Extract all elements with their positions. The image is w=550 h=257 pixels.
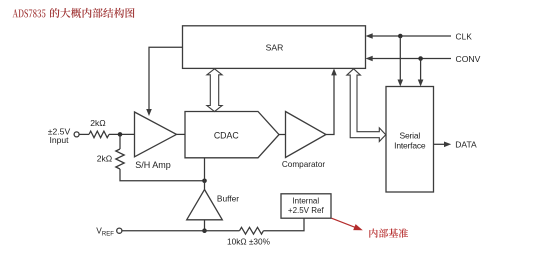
wire Comparator output up to SAR <box>326 68 337 134</box>
svg-text:S/H Amp: S/H Amp <box>135 160 171 170</box>
svg-text:+2.5V Ref: +2.5V Ref <box>288 206 325 215</box>
svg-text:SAR: SAR <box>266 43 284 53</box>
wire VREF to R3 <box>122 230 240 232</box>
wire R2 to bottom rail <box>120 169 205 181</box>
wire input to R1 <box>79 133 89 135</box>
wire DATA output <box>434 142 452 148</box>
node CLK junction <box>398 34 403 39</box>
resistor R2 2kΩ (vertical) <box>97 149 124 169</box>
wire R1 to S/H Amp <box>109 133 135 135</box>
terminal ±2.5V Input <box>48 127 79 145</box>
svg-text:VREF: VREF <box>96 226 114 238</box>
svg-text:DATA: DATA <box>455 140 477 150</box>
svg-text:10kΩ ±30%: 10kΩ ±30% <box>227 236 271 246</box>
wire SAR left to S/H Amp control <box>146 47 182 116</box>
node input junction <box>118 132 123 137</box>
block Internal +2.5V Ref <box>281 194 331 218</box>
wire junction down <box>119 134 121 149</box>
svg-text:Interface: Interface <box>394 140 426 150</box>
svg-text:Serial: Serial <box>400 130 421 140</box>
block Serial Interface <box>386 87 434 193</box>
terminal VREF <box>96 226 122 238</box>
wire R3 to Internal Ref box <box>264 218 305 231</box>
block CDAC <box>185 112 279 158</box>
svg-text:2kΩ: 2kΩ <box>97 154 113 164</box>
svg-text:Buffer: Buffer <box>217 194 239 204</box>
node VREF junction <box>202 228 207 233</box>
wire CDAC bottom to Buffer apex <box>204 158 206 190</box>
svg-text:CLK: CLK <box>456 33 473 42</box>
wire Buffer base to VREF rail <box>204 220 206 231</box>
hollow arrow SAR-CDAC (bidirectional) <box>207 69 222 112</box>
wire CONV to SAR <box>366 56 452 62</box>
svg-text:Internal: Internal <box>292 196 319 205</box>
node CONV junction <box>418 56 423 61</box>
op-amp S/H Amp <box>135 112 177 170</box>
op-amp Buffer <box>187 190 240 220</box>
red annotation arrow 内部基准 <box>332 218 409 238</box>
svg-text:CONV: CONV <box>456 54 481 64</box>
op-amp Comparator <box>282 112 326 170</box>
svg-text:2kΩ: 2kΩ <box>90 118 106 128</box>
wire CLK to SAR <box>366 33 452 39</box>
wire S/H Amp output to CDAC <box>177 133 186 135</box>
hollow arrow SAR-Serial Interface (bent, double-headed) <box>347 69 386 142</box>
resistor R1 2kΩ (horizontal) <box>89 118 109 138</box>
resistor R3 10kΩ ±30% <box>227 227 271 246</box>
wire CDAC to Comparator <box>279 134 286 136</box>
svg-text:CDAC: CDAC <box>214 130 240 140</box>
svg-text:Input: Input <box>49 135 69 145</box>
svg-text:Comparator: Comparator <box>282 160 326 169</box>
node rail junction <box>202 179 207 184</box>
wire CONV down to Serial Interface <box>418 59 424 87</box>
title ADS7835 的大概内部结构图 <box>13 8 135 18</box>
wire CLK down to Serial Interface <box>398 36 404 87</box>
block SAR <box>183 26 366 69</box>
